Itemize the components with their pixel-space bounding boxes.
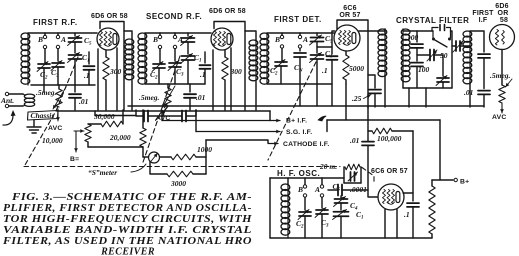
wire: [384, 29, 386, 33]
wire 100a top: [416, 31, 418, 42]
AVC arrow IF: [501, 103, 503, 113]
wire IF2 top to tuning cap: [470, 31, 484, 52]
wire: [452, 45, 456, 47]
capacitor C1 s2: [182, 56, 195, 60]
wire: [299, 33, 301, 35]
wire avc row right: [186, 110, 196, 116]
terminal A lower: [56, 45, 59, 48]
wire cathode line: [206, 140, 268, 143]
capacitor 100 lower: [411, 63, 423, 67]
svg-text:A: A: [60, 35, 66, 44]
capacitor 50 variable: [430, 50, 434, 61]
wire avc row mid: [148, 115, 181, 117]
wire V2 plate loop and drop: [214, 22, 245, 111]
wire .1 bottom: [88, 70, 90, 85]
ground: [27, 127, 41, 133]
svg-text:.01: .01: [79, 97, 88, 106]
svg-text:CRYSTAL FILTER: CRYSTAL FILTER: [396, 16, 469, 25]
wire crystal bottom drop: [408, 88, 410, 107]
wire: [321, 214, 323, 238]
wire: [224, 80, 226, 110]
capacitor C1 tuning: [69, 55, 82, 59]
wire 20k to meter: [142, 147, 144, 157]
svg-text:B: B: [297, 185, 303, 194]
wire to osc grid: [368, 146, 378, 198]
terminal B upper det: [280, 35, 283, 38]
svg-text:50: 50: [440, 51, 448, 60]
capacitor C4 osc: [335, 199, 348, 203]
svg-text:C1: C1: [356, 210, 364, 221]
wire: [431, 180, 433, 186]
terminal B upper: [43, 35, 46, 38]
svg-text:FILTER, AS USED IN THE NATIONA: FILTER, AS USED IN THE NATIONAL HRO: [2, 236, 252, 247]
wire: [483, 95, 485, 108]
tube V2 6D6 second RF: [211, 28, 233, 50]
wire A lower stem: [57, 49, 59, 61]
tube V4 6D6 first IF: [490, 25, 515, 50]
wire IF2 coil bottom: [469, 82, 471, 107]
B-minus arrow: [75, 131, 77, 152]
svg-text:100: 100: [418, 65, 430, 74]
resistor 20m grid leak: [345, 164, 360, 170]
capacitor .01: [69, 94, 81, 98]
wire V2 cathode: [212, 50, 214, 110]
wire B stem: [44, 33, 46, 35]
dashed to osc: [362, 168, 374, 184]
coil L3 primary: [249, 40, 258, 46]
terminal B lower: [43, 45, 46, 48]
wire V1 plate to L2 primary: [124, 31, 132, 39]
wire: [340, 196, 342, 198]
terminal A upper det: [298, 35, 301, 38]
wire 20m bottom: [344, 182, 361, 184]
quill mark: [318, 116, 326, 121]
wire: [187, 60, 189, 84]
wire: [187, 42, 189, 54]
svg-text:“S”meter: “S”meter: [88, 168, 117, 177]
B+ I.F. line: [162, 120, 280, 122]
wire: [287, 178, 289, 184]
wire .01 to bus: [74, 98, 76, 110]
wire V1 plate loop and drop: [100, 22, 124, 111]
wire: [416, 48, 418, 61]
svg-text:CATHODE I.F.: CATHODE I.F.: [283, 141, 329, 148]
svg-text:B: B: [152, 35, 158, 44]
wire: [304, 178, 306, 185]
svg-text:B: B: [37, 35, 43, 44]
svg-text:.01: .01: [464, 88, 473, 97]
wire C1 bottom: [74, 59, 76, 92]
wire: [316, 59, 318, 84]
svg-text:6D6 OR 58: 6D6 OR 58: [91, 13, 128, 20]
capacitor .1 osc: [407, 203, 419, 207]
svg-text:B+: B+: [460, 179, 469, 186]
caption: [2, 192, 253, 256]
svg-text:10,000: 10,000: [42, 136, 63, 145]
wire 20k top: [142, 110, 144, 128]
terminal Ant lower: [5, 104, 8, 107]
resistor 30,000: [101, 121, 123, 127]
wire osc plate: [403, 192, 413, 194]
wire: [299, 48, 301, 51]
capacitor .0001 grid: [338, 185, 342, 196]
AVC dashed slash: [155, 104, 167, 121]
coil L2 secondary: [138, 33, 147, 39]
wire avc resistor top: [58, 85, 60, 89]
wire C2 bottom: [43, 68, 45, 85]
wire ant top: [9, 93, 23, 95]
wire: [158, 68, 160, 84]
wire 10k bottom: [87, 142, 89, 147]
tube V3 6C6 first det: [334, 25, 360, 51]
wire: [460, 45, 470, 47]
wire C6 top: [187, 33, 189, 36]
coil IF2: [463, 31, 472, 37]
capacitor .01 det plate: [362, 142, 374, 146]
terminal B upper s2: [158, 35, 161, 38]
wire det down 1: [299, 84, 301, 106]
resistor 300 s2: [222, 57, 228, 80]
resistor 100,000: [372, 128, 392, 134]
capacitor CN det: [294, 53, 306, 57]
capacitor C2 det: [275, 62, 287, 66]
wire det down 2: [331, 84, 333, 106]
svg-text:A: A: [302, 35, 308, 44]
wire: [321, 197, 323, 208]
svg-text:6D6 OR 58: 6D6 OR 58: [209, 8, 246, 15]
wire cathode lead: [105, 50, 107, 57]
svg-text:VARIABLE BAND-WIDTH I.F. CRYST: VARIABLE BAND-WIDTH I.F. CRYSTAL: [3, 225, 252, 236]
wire bottom bus left: [88, 146, 143, 148]
wire osc top rail: [270, 177, 344, 179]
wire crystal bottom rail: [403, 87, 452, 89]
svg-text:OR: OR: [498, 10, 509, 17]
svg-text:RECEIVER: RECEIVER: [100, 247, 155, 256]
resistor 3000: [167, 171, 193, 177]
coil IF1 secondary: [401, 29, 410, 35]
terminal A upper osc: [320, 185, 323, 188]
wire: [159, 33, 161, 35]
gang dashed line det: [268, 62, 316, 160]
S meter: [149, 152, 160, 163]
svg-text:C2: C2: [296, 219, 304, 230]
wire .1 top s2: [204, 52, 206, 63]
wire top rail stage1: [28, 32, 97, 34]
wire L3 primary bottom: [255, 82, 257, 110]
wire: [174, 33, 176, 35]
svg-text:1000: 1000: [197, 145, 212, 154]
capacitor C3 padder: [52, 63, 64, 67]
svg-text:30,000: 30,000: [93, 112, 115, 121]
tube V5 6C6 HF osc: [378, 184, 404, 210]
capacitor C3 s2: [169, 63, 181, 67]
wire grid row left: [328, 189, 338, 191]
wire: [281, 33, 283, 35]
svg-text:100: 100: [407, 33, 419, 42]
svg-text:.5meg.: .5meg.: [139, 93, 160, 102]
wire 30k left: [88, 123, 101, 125]
svg-text:CN: CN: [294, 63, 303, 74]
svg-text:6C6: 6C6: [343, 5, 356, 12]
wire: [331, 60, 333, 84]
coil L3 secondary: [260, 33, 269, 39]
S.G. I.F. line: [196, 131, 280, 133]
chassis box: [28, 111, 59, 121]
svg-text:20 m.: 20 m.: [319, 162, 337, 171]
crystal phasing trimmer: [432, 28, 438, 32]
wire osc cathode 1: [384, 210, 386, 239]
svg-text:.1: .1: [404, 210, 410, 219]
wire: [304, 197, 306, 210]
capacitor C2 trimmer: [38, 64, 50, 68]
wire 20m left: [343, 167, 345, 183]
svg-text:.01: .01: [196, 93, 205, 102]
resistor 1000: [171, 154, 196, 160]
svg-text:PLIFIER, FIRST DETECTOR AND OS: PLIFIER, FIRST DETECTOR AND OSCILLA-: [3, 203, 252, 214]
terminal A lower det: [298, 45, 301, 48]
wire crystal mid drop: [425, 88, 427, 107]
wire avc tap: [163, 112, 165, 116]
svg-text:FIRST R.F.: FIRST R.F.: [33, 18, 78, 27]
svg-text:A: A: [314, 185, 320, 194]
terminal A upper: [56, 35, 59, 38]
terminal Ant upper: [5, 92, 8, 95]
wire bus H1 long: [128, 105, 484, 107]
wire divider top: [432, 179, 440, 181]
wire C3 bottom: [57, 67, 59, 85]
terminal A lower osc: [320, 194, 323, 197]
svg-text:I.F: I.F: [479, 17, 488, 24]
wire grid node det: [317, 46, 332, 48]
svg-text:C2: C2: [270, 66, 278, 77]
resistor 5000 det cathode: [343, 55, 349, 80]
wire: [161, 111, 163, 121]
wire: [340, 217, 342, 239]
wire A stem: [57, 33, 59, 35]
wire jog H2-B+IF: [269, 111, 271, 121]
switch arm: [434, 40, 447, 48]
svg-text:58: 58: [500, 17, 508, 24]
S meter callout: [131, 164, 146, 172]
resistor 300 cathode: [103, 57, 109, 80]
svg-text:A: A: [177, 35, 183, 44]
wire: [195, 110, 197, 132]
wire V3 plate drop: [367, 31, 369, 108]
svg-text:FIRST: FIRST: [472, 10, 494, 17]
wire: [340, 203, 342, 210]
svg-text:Ant.: Ant.: [0, 96, 14, 105]
svg-text:C5: C5: [84, 36, 92, 47]
wire V3 cathode: [345, 51, 347, 55]
capacitor 100 upper: [411, 44, 423, 48]
wire 1000 right: [196, 156, 206, 158]
wire V3 plate to IF transformer: [359, 30, 385, 32]
svg-text:AVC: AVC: [156, 115, 170, 122]
wire: [281, 48, 283, 60]
svg-text:100,000: 100,000: [377, 134, 402, 143]
wire avc row left: [136, 110, 144, 116]
capacitor C2 osc: [299, 212, 311, 216]
svg-text:.1: .1: [200, 70, 206, 79]
wire plate supply right: [412, 131, 414, 201]
terminal B upper osc: [303, 185, 306, 188]
capacitor .01 IF: [478, 91, 490, 95]
capacitor .1 avc right: [182, 111, 186, 122]
wire: [392, 130, 413, 132]
resistor 10,000 pot: [85, 124, 91, 142]
wire .25 bottom: [374, 94, 376, 108]
svg-text:300: 300: [230, 67, 243, 76]
svg-text:3000: 3000: [170, 179, 186, 188]
svg-text:.1: .1: [84, 71, 90, 80]
potentiometer wiper arrow: [74, 130, 84, 132]
svg-text:C2: C2: [40, 70, 48, 81]
wire V4 cathode: [501, 50, 503, 86]
terminal B lower osc: [303, 194, 306, 197]
capacitor .1 det: [327, 56, 338, 60]
tube V1 6D6 first RF: [97, 28, 119, 50]
svg-text:.1: .1: [322, 66, 328, 75]
terminal A upper s2: [173, 35, 176, 38]
wire phasing top: [442, 55, 444, 76]
svg-text:6D6: 6D6: [495, 3, 508, 10]
wire top rail det: [267, 32, 334, 34]
wire: [174, 67, 176, 84]
crystal switch: [432, 31, 434, 38]
wire meter loop right: [205, 140, 207, 174]
wire: [431, 234, 433, 238]
wire 30k right up: [122, 110, 124, 124]
svg-text:.0001: .0001: [350, 185, 367, 194]
wire plate-side lead down: [116, 48, 118, 110]
wire: [174, 49, 176, 61]
wire: [304, 216, 306, 238]
capacitor .25: [369, 90, 381, 94]
wire: [316, 33, 318, 36]
wire det B+ drop: [367, 106, 369, 141]
wire .01 top s2: [189, 84, 191, 92]
wire 5000 to B+IF line: [345, 107, 347, 120]
wire cathode bypass top: [88, 52, 90, 64]
wire: [204, 69, 206, 84]
wire: [326, 120, 328, 132]
svg-text:B: B: [274, 35, 280, 44]
resistor divider R lower: [429, 210, 435, 234]
dashed gang bus: [24, 166, 340, 168]
wire V2 plate to det coil: [245, 31, 256, 40]
svg-text:C3: C3: [321, 218, 329, 229]
wire: [159, 49, 161, 62]
svg-text:TOR HIGH-FREQUENCY CIRCUITS, W: TOR HIGH-FREQUENCY CIRCUITS, WITH: [3, 214, 253, 225]
wire meter right: [160, 156, 171, 158]
resistor .5meg AVC stage1: [56, 89, 62, 107]
svg-text:.5meg.: .5meg.: [490, 71, 511, 80]
wire det down 3: [316, 84, 318, 106]
resistor .5meg AVC stage2: [165, 88, 171, 106]
wire V3 plate loop: [337, 20, 368, 31]
svg-text:300: 300: [109, 67, 122, 76]
wire osc cathode 2: [396, 210, 398, 239]
capacitor IF tuning: [478, 54, 490, 58]
wire top rail stage2: [145, 32, 211, 34]
capacitor C5: [69, 38, 82, 42]
svg-text:B=: B=: [70, 156, 79, 163]
wire B+IF resume: [327, 119, 440, 121]
resistor 20,000: [140, 128, 146, 147]
svg-text:6C6 OR 57: 6C6 OR 57: [371, 168, 408, 175]
wire V2 plate-side lead down: [230, 48, 232, 110]
wire crystal top rail: [403, 30, 433, 32]
terminal B+: [454, 178, 457, 181]
wire B+ feed: [440, 120, 453, 180]
capacitor coupling trimmer: [456, 41, 460, 51]
wire B lower stem: [44, 49, 46, 62]
wire chassis to ground: [33, 120, 35, 126]
coil IF1 primary: [378, 29, 387, 35]
wire to chassis: [43, 85, 45, 92]
terminal A lower s2: [173, 45, 176, 48]
wire .1 top det: [331, 47, 333, 54]
capacitor C5 det: [311, 38, 324, 42]
wire: [224, 50, 226, 57]
gang dashed line stage2: [142, 56, 180, 165]
svg-text:C1: C1: [194, 53, 202, 64]
wire: [321, 178, 323, 185]
resistor .5meg IF: [499, 85, 505, 103]
capacitor .1 avc left: [144, 111, 148, 122]
wire: [167, 84, 169, 88]
svg-text:FIRST DET.: FIRST DET.: [274, 15, 322, 24]
wire C5 top lead: [74, 33, 76, 36]
wire screen lead down: [97, 49, 99, 110]
capacitor padding: [351, 172, 355, 181]
antenna callout arrow: [3, 112, 13, 125]
svg-text:C3: C3: [176, 67, 184, 78]
wire: [483, 58, 485, 89]
terminal B lower det: [280, 45, 283, 48]
wire bottom rail stage2: [145, 83, 205, 85]
gang dashed line stage1: [25, 57, 78, 165]
wire crystal right rail: [451, 31, 453, 88]
svg-text:C2: C2: [150, 70, 158, 81]
wire bottom rail stage1: [31, 84, 95, 86]
svg-text:S.G. I.F.: S.G. I.F.: [286, 129, 312, 136]
svg-text:.25: .25: [352, 94, 362, 103]
wire meter left: [143, 156, 148, 158]
svg-text:Chassis: Chassis: [31, 111, 55, 120]
svg-text:AVC: AVC: [48, 125, 62, 132]
svg-text:.01: .01: [350, 136, 359, 145]
capacitor C1 det: [311, 55, 324, 59]
wire 3000 right: [193, 173, 206, 175]
terminal B lower s2: [158, 45, 161, 48]
svg-text:H. F. OSC.: H. F. OSC.: [277, 169, 320, 178]
coil osc: [281, 184, 290, 190]
wire osc bottom rail: [270, 237, 432, 239]
wire det down 4: [345, 84, 347, 106]
wire bottom rail det: [267, 83, 332, 85]
wire .25 top: [368, 75, 375, 88]
wire C5-C1 link: [74, 42, 76, 53]
svg-text:20,000: 20,000: [109, 133, 131, 142]
antenna coupling coil: [24, 94, 34, 98]
svg-text:5000: 5000: [349, 64, 364, 73]
svg-text:AVC: AVC: [492, 114, 506, 121]
wire IF1 primary bottom: [384, 75, 386, 107]
coil L2 primary: [125, 39, 134, 45]
wire: [442, 82, 444, 88]
svg-text:OR 57: OR 57: [339, 12, 360, 19]
